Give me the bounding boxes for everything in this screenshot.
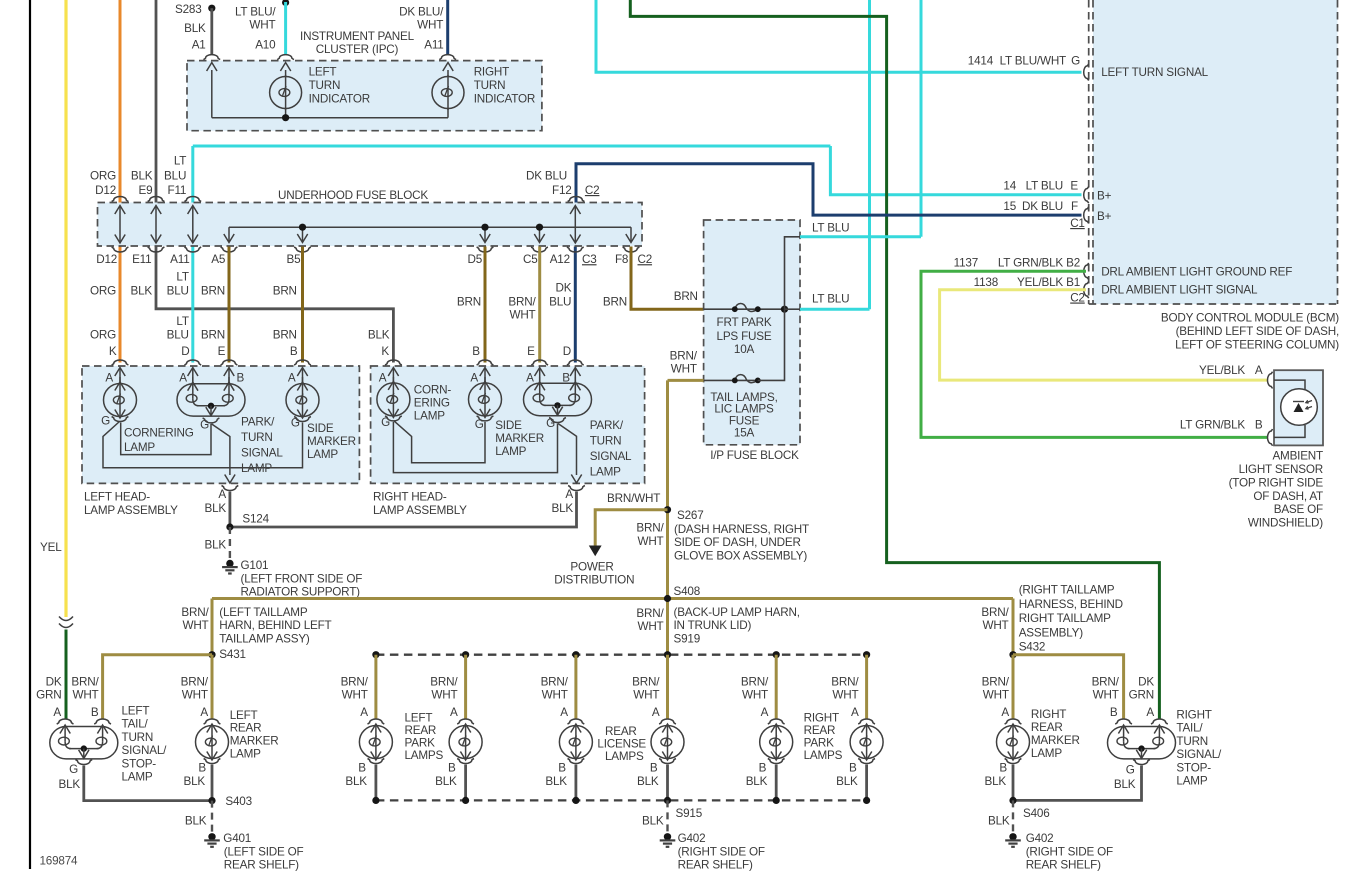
svg-text:WHT: WHT <box>671 363 697 376</box>
svg-text:DK BLU: DK BLU <box>1022 200 1063 213</box>
wire BLK right rear park lamp 2 to ground splice <box>865 765 868 801</box>
svg-text:G: G <box>1071 55 1080 68</box>
svg-text:WHT: WHT <box>342 689 368 702</box>
svg-text:POWER: POWER <box>570 561 613 574</box>
svg-text:C3: C3 <box>582 253 597 266</box>
svg-text:BLU: BLU <box>549 296 571 309</box>
svg-text:LT GRN/BLK: LT GRN/BLK <box>1180 419 1246 432</box>
svg-text:LEFT HEAD-: LEFT HEAD- <box>84 491 150 504</box>
splice S431 dot <box>208 651 215 658</box>
svg-text:WHT: WHT <box>182 689 208 702</box>
wire BLK left rear park lamp 1 to ground splice <box>374 765 377 801</box>
svg-text:BRN/: BRN/ <box>430 676 458 689</box>
svg-text:LAMP: LAMP <box>307 448 338 461</box>
left rear park lamp 2 G bracket <box>457 759 474 764</box>
right headlamp assembly box <box>371 366 645 483</box>
splice S403 dot <box>208 797 215 804</box>
svg-text:(RIGHT SIDE OF: (RIGHT SIDE OF <box>678 845 765 858</box>
wire DK BLU/WHT from top to IPC pin A11 <box>446 0 449 55</box>
left park/turn signal lamp dual filament <box>192 377 194 384</box>
svg-text:A: A <box>105 372 113 385</box>
IPC connector bracket A11 <box>439 55 456 60</box>
svg-text:S431: S431 <box>219 648 246 661</box>
svg-text:WHT: WHT <box>182 619 208 632</box>
svg-text:G101: G101 <box>241 559 269 572</box>
svg-text:DK: DK <box>1138 676 1154 689</box>
svg-text:TAILLAMP ASSY): TAILLAMP ASSY) <box>219 632 310 645</box>
svg-text:ASSEMBLY): ASSEMBLY) <box>1019 626 1084 639</box>
dashed harness S915 ground line <box>376 799 867 801</box>
rear license lamp 2 G bracket <box>659 759 676 764</box>
wires BRN/WHT S919 drops to park/license lamps <box>374 655 377 720</box>
fuse block bus junction dots <box>299 224 306 231</box>
svg-text:WHT: WHT <box>417 19 443 32</box>
svg-text:BLU: BLU <box>164 169 186 182</box>
IPC connector bracket A1 <box>203 55 220 60</box>
svg-text:SIGNAL: SIGNAL <box>241 447 283 460</box>
svg-text:LT BLU: LT BLU <box>1026 180 1063 193</box>
wire BRN A5 to left headlamp pin E <box>228 247 231 363</box>
svg-text:REAR: REAR <box>605 725 637 738</box>
svg-text:B: B <box>558 762 566 775</box>
ground G101 <box>226 560 233 567</box>
left headlamp ground wiring path to side marker <box>103 422 303 468</box>
dashed BLK to G101 <box>229 527 231 558</box>
wire LT BLU 1414 from top down then right to BCM pin G <box>596 0 1082 72</box>
svg-text:A11: A11 <box>424 38 443 51</box>
svg-text:BLK: BLK <box>552 502 574 515</box>
svg-text:BLK: BLK <box>545 775 567 788</box>
power distribution arrow <box>589 546 602 557</box>
svg-text:A: A <box>179 372 187 385</box>
svg-text:BRN/: BRN/ <box>982 676 1010 689</box>
svg-text:LAMP: LAMP <box>124 441 155 454</box>
svg-text:BRN/: BRN/ <box>341 676 369 689</box>
svg-text:10A: 10A <box>734 343 755 356</box>
svg-text:LAMP ASSEMBLY: LAMP ASSEMBLY <box>373 504 467 517</box>
svg-text:D5: D5 <box>467 253 482 266</box>
svg-text:SIDE: SIDE <box>495 419 522 432</box>
svg-text:CLUSTER (IPC): CLUSTER (IPC) <box>316 43 399 56</box>
svg-text:A12: A12 <box>550 253 570 266</box>
svg-text:OF DASH, AT: OF DASH, AT <box>1253 490 1323 503</box>
svg-text:WHT: WHT <box>249 19 275 32</box>
svg-text:REAR SHELF): REAR SHELF) <box>678 859 753 872</box>
svg-text:BRN/: BRN/ <box>741 676 769 689</box>
svg-text:BLK: BLK <box>205 538 227 551</box>
svg-text:GRN: GRN <box>1129 689 1154 702</box>
svg-text:TURN: TURN <box>1176 735 1208 748</box>
svg-text:G402: G402 <box>678 832 706 845</box>
wire LT BLU off-page riser B (to I/P fuse block upper output) <box>920 0 923 237</box>
wire BRN D5 to right headlamp pin B <box>484 247 487 363</box>
svg-text:BLU: BLU <box>167 329 189 342</box>
instrument panel cluster IPC box <box>187 61 542 131</box>
svg-text:S267: S267 <box>677 509 704 522</box>
svg-text:A: A <box>1001 706 1009 719</box>
svg-text:A1: A1 <box>192 38 206 51</box>
svg-text:BLU: BLU <box>167 285 189 298</box>
svg-text:TURN: TURN <box>122 731 154 744</box>
svg-text:YEL: YEL <box>40 541 62 554</box>
wire BRN/WHT tail lamps fuse feed <box>668 379 704 382</box>
svg-text:RIGHT: RIGHT <box>1176 709 1211 722</box>
svg-text:BRN/WHT: BRN/WHT <box>607 492 660 505</box>
right headlamp top connector brackets <box>385 360 402 365</box>
svg-text:K: K <box>109 345 117 358</box>
svg-text:BRN: BRN <box>273 285 297 298</box>
svg-text:BRN/: BRN/ <box>508 296 536 309</box>
svg-text:G401: G401 <box>223 832 251 845</box>
svg-text:B: B <box>562 372 570 385</box>
svg-text:(LEFT FRONT SIDE OF: (LEFT FRONT SIDE OF <box>241 572 363 585</box>
svg-text:BLK: BLK <box>985 775 1007 788</box>
svg-text:BRN/: BRN/ <box>636 607 664 620</box>
svg-text:(TOP RIGHT SIDE: (TOP RIGHT SIDE <box>1229 476 1324 489</box>
svg-text:B: B <box>1110 706 1118 719</box>
left rear park lamp 1 bulb <box>359 726 392 759</box>
BCM connector bracket G <box>1084 64 1089 81</box>
BCM connector bracket F <box>1084 207 1089 224</box>
wire BRN/WHT S431 branch to left tail lamp pin B <box>103 655 212 720</box>
svg-text:IN TRUNK LID): IN TRUNK LID) <box>674 619 752 632</box>
svg-text:YEL/BLK: YEL/BLK <box>1199 364 1245 377</box>
svg-text:PARK/: PARK/ <box>241 416 275 429</box>
junction dot FRT PARK fuse output <box>781 306 788 313</box>
svg-text:ERING: ERING <box>414 397 450 410</box>
svg-text:S406: S406 <box>1023 807 1050 820</box>
svg-text:LEFT: LEFT <box>230 709 258 722</box>
right rear park lamp 2 bulb <box>850 726 883 759</box>
wire BLK left rear park lamp 2 to ground splice <box>464 765 467 801</box>
svg-text:DK BLU: DK BLU <box>526 169 567 182</box>
left cornering lamp bulb <box>119 377 121 384</box>
svg-text:REAR: REAR <box>230 722 262 735</box>
svg-text:WHT: WHT <box>633 689 659 702</box>
svg-text:A: A <box>526 372 534 385</box>
svg-text:LT GRN/BLK: LT GRN/BLK <box>998 256 1064 269</box>
svg-text:DK: DK <box>555 282 571 295</box>
svg-text:LEFT: LEFT <box>405 712 433 725</box>
wire BLK from S283 to IPC pin A1 <box>210 8 213 54</box>
wire LT BLU off-page riser A (to I/P fuse block lower output) <box>868 0 871 309</box>
wire BRN/WHT S408 to S431 <box>211 599 214 655</box>
svg-text:DRL AMBIENT LIGHT GROUND REF: DRL AMBIENT LIGHT GROUND REF <box>1101 265 1292 278</box>
svg-text:I/P FUSE BLOCK: I/P FUSE BLOCK <box>710 449 799 462</box>
ground G402 center <box>664 833 671 840</box>
svg-text:ORG: ORG <box>90 169 116 182</box>
svg-text:STOP-: STOP- <box>1176 761 1211 774</box>
wire ORG fuse block D12 to left headlamp pin K <box>119 247 122 363</box>
wire BLK left tail G to S403 <box>84 766 212 801</box>
svg-text:LT BLU: LT BLU <box>812 222 849 235</box>
I/P fuse block box <box>704 220 800 445</box>
splice S267 dot <box>664 506 671 513</box>
dashed BLK to G402 right <box>1012 800 1014 832</box>
svg-text:B: B <box>290 345 298 358</box>
svg-text:RIGHT: RIGHT <box>1031 708 1066 721</box>
svg-text:LEFT: LEFT <box>122 705 150 718</box>
svg-text:B2: B2 <box>1066 256 1080 269</box>
svg-text:B: B <box>1255 419 1263 432</box>
svg-text:LT: LT <box>174 155 186 168</box>
svg-text:B: B <box>198 762 206 775</box>
left marker G bracket <box>204 759 221 764</box>
svg-text:BRN: BRN <box>201 285 225 298</box>
svg-text:S283: S283 <box>175 3 202 16</box>
svg-text:MARKER: MARKER <box>1031 734 1080 747</box>
wire break symbol YEL to DK GRN <box>59 617 73 628</box>
wire BLK left marker to S403 <box>211 765 214 801</box>
svg-text:S403: S403 <box>225 795 252 808</box>
svg-text:RIGHT HEAD-: RIGHT HEAD- <box>373 491 447 504</box>
right headlamp ground wiring path to side marker <box>394 421 485 463</box>
svg-text:RIGHT TAILLAMP: RIGHT TAILLAMP <box>1019 612 1111 625</box>
svg-text:(BEHIND LEFT SIDE OF DASH,: (BEHIND LEFT SIDE OF DASH, <box>1176 325 1339 338</box>
svg-text:C1: C1 <box>1070 217 1085 230</box>
wire BLK right tail G to S406 <box>1013 766 1142 801</box>
svg-text:A: A <box>450 706 458 719</box>
wire LT BLU fuse block A11 to left headlamp pin D <box>191 247 194 363</box>
right tail lamp G bracket <box>1133 760 1150 765</box>
svg-text:G: G <box>1126 764 1135 777</box>
left headlamp assembly box <box>82 366 359 483</box>
svg-text:B: B <box>237 372 245 385</box>
svg-text:A: A <box>565 488 573 501</box>
svg-text:LAMPS: LAMPS <box>804 749 843 762</box>
svg-text:BLK: BLK <box>205 502 227 515</box>
svg-text:B: B <box>849 762 857 775</box>
BCM connector bracket B1 <box>1084 281 1089 298</box>
splice S408 dot <box>664 595 671 602</box>
svg-text:WHT: WHT <box>72 689 98 702</box>
IPC internal ground bus <box>212 117 448 119</box>
left headlamp G bracket cornering <box>112 417 129 422</box>
svg-text:DISTRIBUTION: DISTRIBUTION <box>554 574 634 587</box>
photo sensor diode symbol <box>1294 403 1304 412</box>
wire BLK left headlamp ground to S124 <box>228 492 231 528</box>
svg-text:BLK: BLK <box>131 285 153 298</box>
left rear marker lamp bracket <box>204 719 221 724</box>
svg-text:G: G <box>381 416 390 429</box>
svg-text:(RIGHT SIDE OF: (RIGHT SIDE OF <box>1026 845 1113 858</box>
IPC pin A11 entry arrow <box>447 70 449 77</box>
svg-text:G402: G402 <box>1026 832 1054 845</box>
wire LT BLU horizontal from IPC area to BCM riser <box>193 145 831 148</box>
internal run from fuse output to right edge <box>785 308 801 310</box>
svg-text:BLK: BLK <box>746 775 768 788</box>
svg-text:SIGNAL/: SIGNAL/ <box>1176 748 1222 761</box>
svg-text:(LEFT TAILLAMP: (LEFT TAILLAMP <box>219 606 308 619</box>
svg-text:1414: 1414 <box>968 55 994 68</box>
svg-text:(LEFT SIDE OF: (LEFT SIDE OF <box>224 845 304 858</box>
rear license lamp 2 bracket <box>659 719 676 724</box>
splice S283 dot <box>208 5 215 12</box>
page border line <box>29 0 31 869</box>
sensor connector bracket B <box>1268 429 1273 446</box>
svg-text:A: A <box>200 706 208 719</box>
svg-text:LAMPS: LAMPS <box>605 750 644 763</box>
wire BLK rear license lamp 1 to ground splice <box>575 765 578 801</box>
svg-text:RIGHT: RIGHT <box>474 65 509 78</box>
svg-text:BLK: BLK <box>131 169 153 182</box>
svg-text:A: A <box>53 706 61 719</box>
wire BRN/WHT S267 branch to power distribution <box>595 510 667 547</box>
svg-text:LICENSE: LICENSE <box>597 738 646 751</box>
wire BRN/WHT S408 horizontal run <box>212 597 1013 600</box>
svg-text:A: A <box>761 706 769 719</box>
svg-text:A: A <box>851 706 859 719</box>
BCM connector bracket E <box>1084 186 1089 203</box>
wire DK BLU fuse block A12 to right headlamp pin D <box>574 247 577 363</box>
wire BLK right marker to S406 <box>1012 765 1015 801</box>
wire BRN/WHT C5 to right headlamp pin E <box>538 247 541 363</box>
svg-text:E: E <box>1070 180 1078 193</box>
wire BLK fuse block E11 down then right to right headlamp pin K <box>156 247 393 363</box>
svg-text:F: F <box>1071 200 1078 213</box>
wire LT BLU upper output to riser B <box>800 235 921 238</box>
right rear park lamp 1 bracket <box>768 719 785 724</box>
rear license lamp 1 G bracket <box>568 759 585 764</box>
svg-text:INDICATOR: INDICATOR <box>309 93 370 106</box>
svg-text:REAR SHELF): REAR SHELF) <box>1026 859 1101 872</box>
sensor connector bracket A <box>1268 372 1273 389</box>
svg-text:LAMP: LAMP <box>1031 747 1062 760</box>
svg-text:F8: F8 <box>615 253 628 266</box>
svg-text:S432: S432 <box>1019 641 1045 654</box>
right rear park lamp 2 bracket <box>858 719 875 724</box>
svg-text:B5: B5 <box>286 253 301 266</box>
fuse block internal bus <box>229 226 631 228</box>
svg-text:DK BLU/: DK BLU/ <box>399 6 444 19</box>
svg-text:1138: 1138 <box>974 276 998 289</box>
svg-text:BRN/: BRN/ <box>71 676 99 689</box>
svg-text:B: B <box>472 345 480 358</box>
svg-text:LAMP ASSEMBLY: LAMP ASSEMBLY <box>84 504 178 517</box>
dashed BLK to G401 <box>211 801 213 832</box>
left rear park lamp 1 bracket <box>368 719 385 724</box>
svg-text:TAIL/: TAIL/ <box>122 718 149 731</box>
fuse block F11-A11 double arrow <box>192 206 194 244</box>
svg-text:BRN: BRN <box>201 329 225 342</box>
svg-text:169874: 169874 <box>40 855 79 868</box>
svg-text:A: A <box>1146 706 1154 719</box>
svg-text:BRN/: BRN/ <box>181 676 209 689</box>
left tail/turn signal/stop lamp <box>50 727 118 759</box>
svg-text:E: E <box>527 345 535 358</box>
svg-text:B: B <box>999 762 1007 775</box>
svg-text:BODY CONTROL MODULE (BCM): BODY CONTROL MODULE (BCM) <box>1161 312 1339 325</box>
svg-text:REAR: REAR <box>405 724 437 737</box>
svg-text:TURN: TURN <box>474 79 506 92</box>
svg-text:A11: A11 <box>170 253 189 266</box>
fuse block bottom connector brackets <box>112 247 129 252</box>
svg-text:GLOVE BOX ASSEMBLY): GLOVE BOX ASSEMBLY) <box>674 549 807 562</box>
svg-text:LIGHT SENSOR: LIGHT SENSOR <box>1239 463 1323 476</box>
svg-text:WHT: WHT <box>742 689 768 702</box>
left side marker lamp bulb <box>302 377 304 384</box>
svg-text:WHT: WHT <box>431 689 457 702</box>
svg-text:SIDE OF DASH, UNDER: SIDE OF DASH, UNDER <box>674 536 801 549</box>
svg-text:LT: LT <box>176 315 188 328</box>
svg-text:C2: C2 <box>1070 292 1085 305</box>
svg-text:SIDE: SIDE <box>307 422 334 435</box>
right tail/turn signal/stop lamp connector brackets <box>1115 719 1132 724</box>
svg-text:B: B <box>448 762 456 775</box>
svg-text:WINDSHIELD): WINDSHIELD) <box>1248 517 1323 530</box>
wire BRN B5 to left headlamp pin B <box>301 247 304 363</box>
svg-text:REAR SHELF): REAR SHELF) <box>224 859 299 872</box>
IPC pin A10 entry arrow <box>285 70 287 77</box>
IPC connector bracket A10 <box>277 55 294 60</box>
svg-text:GRN: GRN <box>36 689 61 702</box>
svg-text:WHT: WHT <box>637 535 663 548</box>
left rear park lamp 2 bracket <box>457 719 474 724</box>
svg-text:K: K <box>381 345 389 358</box>
svg-text:LT BLU/: LT BLU/ <box>235 6 276 19</box>
svg-text:A: A <box>560 706 568 719</box>
right cornering lamp bulb <box>392 377 394 383</box>
svg-text:WHT: WHT <box>509 309 535 322</box>
svg-text:A5: A5 <box>211 253 226 266</box>
svg-text:UNDERHOOD FUSE BLOCK: UNDERHOOD FUSE BLOCK <box>278 189 428 202</box>
svg-text:BRN: BRN <box>603 296 627 309</box>
junction dot top of LT BLU/WHT wire <box>282 0 289 6</box>
svg-text:BLK: BLK <box>345 775 367 788</box>
svg-text:REAR: REAR <box>804 724 836 737</box>
left rear marker lamp bulb <box>196 726 229 759</box>
svg-text:WHT: WHT <box>982 619 1008 632</box>
left headlamp G bracket park/turn <box>203 418 220 423</box>
svg-text:B: B <box>358 762 366 775</box>
svg-text:BLK: BLK <box>988 815 1010 828</box>
svg-text:WHT: WHT <box>1093 689 1119 702</box>
fuse block E9-E11 double arrow <box>155 206 157 244</box>
svg-text:ORG: ORG <box>90 329 116 342</box>
svg-text:TURN: TURN <box>241 431 273 444</box>
wire BRN/WHT S432 branch to right tail lamp pin B <box>1013 655 1124 720</box>
left tail/turn signal/stop lamp connector brackets <box>57 719 74 724</box>
svg-text:INSTRUMENT PANEL: INSTRUMENT PANEL <box>300 30 415 43</box>
svg-text:LEFT: LEFT <box>309 65 337 78</box>
svg-text:D: D <box>563 345 571 358</box>
svg-text:TURN: TURN <box>590 434 622 447</box>
svg-text:LEFT OF STEERING COLUMN): LEFT OF STEERING COLUMN) <box>1175 338 1339 351</box>
right rear park lamp 2 G bracket <box>858 759 875 764</box>
BCM connector bracket B2 <box>1084 263 1089 280</box>
svg-text:LAMP: LAMP <box>122 771 153 784</box>
svg-text:PARK/: PARK/ <box>590 419 624 432</box>
left headlamp ground wiring path to park/turn <box>121 423 211 455</box>
right headlamp G bracket cornering <box>385 416 402 421</box>
svg-text:A10: A10 <box>255 38 276 51</box>
svg-text:HARNESS, BEHIND: HARNESS, BEHIND <box>1019 598 1123 611</box>
wire BLK rear license lamp 2 to ground splice <box>666 765 669 801</box>
svg-text:(BACK-UP LAMP HARN,: (BACK-UP LAMP HARN, <box>674 606 800 619</box>
svg-text:BRN/: BRN/ <box>1092 676 1120 689</box>
dashed BLK to G402 center <box>666 800 668 832</box>
svg-text:14: 14 <box>1003 180 1016 193</box>
left headlamp ground exit <box>212 424 230 475</box>
svg-text:BLK: BLK <box>59 778 81 791</box>
wire LT BLU/WHT from top to IPC pin A10 <box>284 2 287 55</box>
svg-text:LT: LT <box>176 271 188 284</box>
ground G402 right <box>1009 833 1016 840</box>
svg-text:MARKER: MARKER <box>495 432 544 445</box>
svg-text:B+: B+ <box>1097 190 1112 203</box>
svg-text:G: G <box>69 763 78 776</box>
svg-text:A: A <box>652 706 660 719</box>
